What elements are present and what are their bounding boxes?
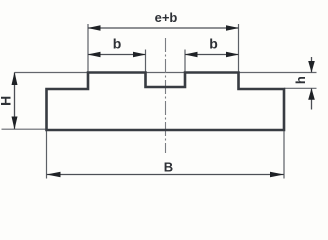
- svg-text:e+b: e+b: [155, 10, 178, 25]
- svg-text:b: b: [209, 36, 218, 52]
- svg-text:b: b: [113, 36, 122, 52]
- svg-text:H: H: [0, 96, 14, 106]
- svg-text:B: B: [164, 160, 173, 175]
- svg-text:h: h: [293, 76, 308, 84]
